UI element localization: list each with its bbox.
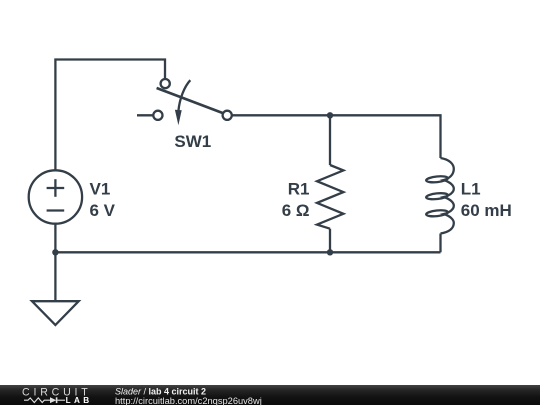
inductor L1 — [426, 158, 454, 234]
svg-text:http://circuitlab.com/c2nqsp26: http://circuitlab.com/c2nqsp26uv8wj — [115, 395, 262, 405]
footer bar — [0, 385, 540, 406]
wire node A to ground — [54, 252, 56, 301]
label V1 value — [90, 180, 116, 221]
svg-text:L1: L1 — [461, 180, 481, 199]
CircuitLab logo wordmark — [22, 386, 92, 398]
label R1 value — [282, 180, 310, 221]
wire switch left stub — [137, 114, 153, 116]
terminal pole — [161, 79, 170, 88]
logo diode — [50, 397, 65, 403]
svg-text:LAB: LAB — [66, 395, 93, 404]
wire L1 bottom lead — [439, 234, 441, 253]
svg-text:6 V: 6 V — [90, 201, 116, 220]
svg-text:R1: R1 — [288, 180, 310, 199]
wire R1 top lead — [329, 115, 331, 165]
logo resistor squiggle — [24, 397, 50, 402]
wire bottom rail — [55, 251, 440, 253]
logo LAB text — [66, 395, 93, 404]
voltage source V1 — [29, 170, 82, 223]
wire V1 bottom to node A — [54, 224, 56, 252]
ground — [32, 301, 79, 325]
svg-text:Slader / lab 4 circuit 2: Slader / lab 4 circuit 2 — [115, 386, 206, 396]
label SW1 — [174, 132, 211, 151]
wire switch to R1 and L1 top rail — [232, 115, 441, 158]
svg-text:V1: V1 — [90, 180, 111, 199]
footer url line — [115, 395, 262, 405]
resistor R1 — [317, 165, 343, 229]
svg-text:SW1: SW1 — [174, 132, 211, 151]
svg-text:6 Ω: 6 Ω — [282, 201, 310, 220]
blade — [157, 88, 224, 113]
wire R1 bottom lead — [329, 229, 331, 253]
terminal throw left — [153, 111, 162, 120]
node junction R1 top — [327, 112, 333, 118]
terminal throw right — [223, 111, 232, 120]
wire V1 top to switch — [55, 60, 165, 171]
footer title line — [115, 386, 206, 396]
switch SW1 — [153, 79, 232, 125]
node junction R1 bottom — [327, 249, 333, 255]
svg-text:60 mH: 60 mH — [461, 201, 512, 220]
node junction V1 bottom — [52, 249, 58, 255]
label L1 value — [461, 180, 512, 221]
actuation arrow — [178, 80, 190, 111]
